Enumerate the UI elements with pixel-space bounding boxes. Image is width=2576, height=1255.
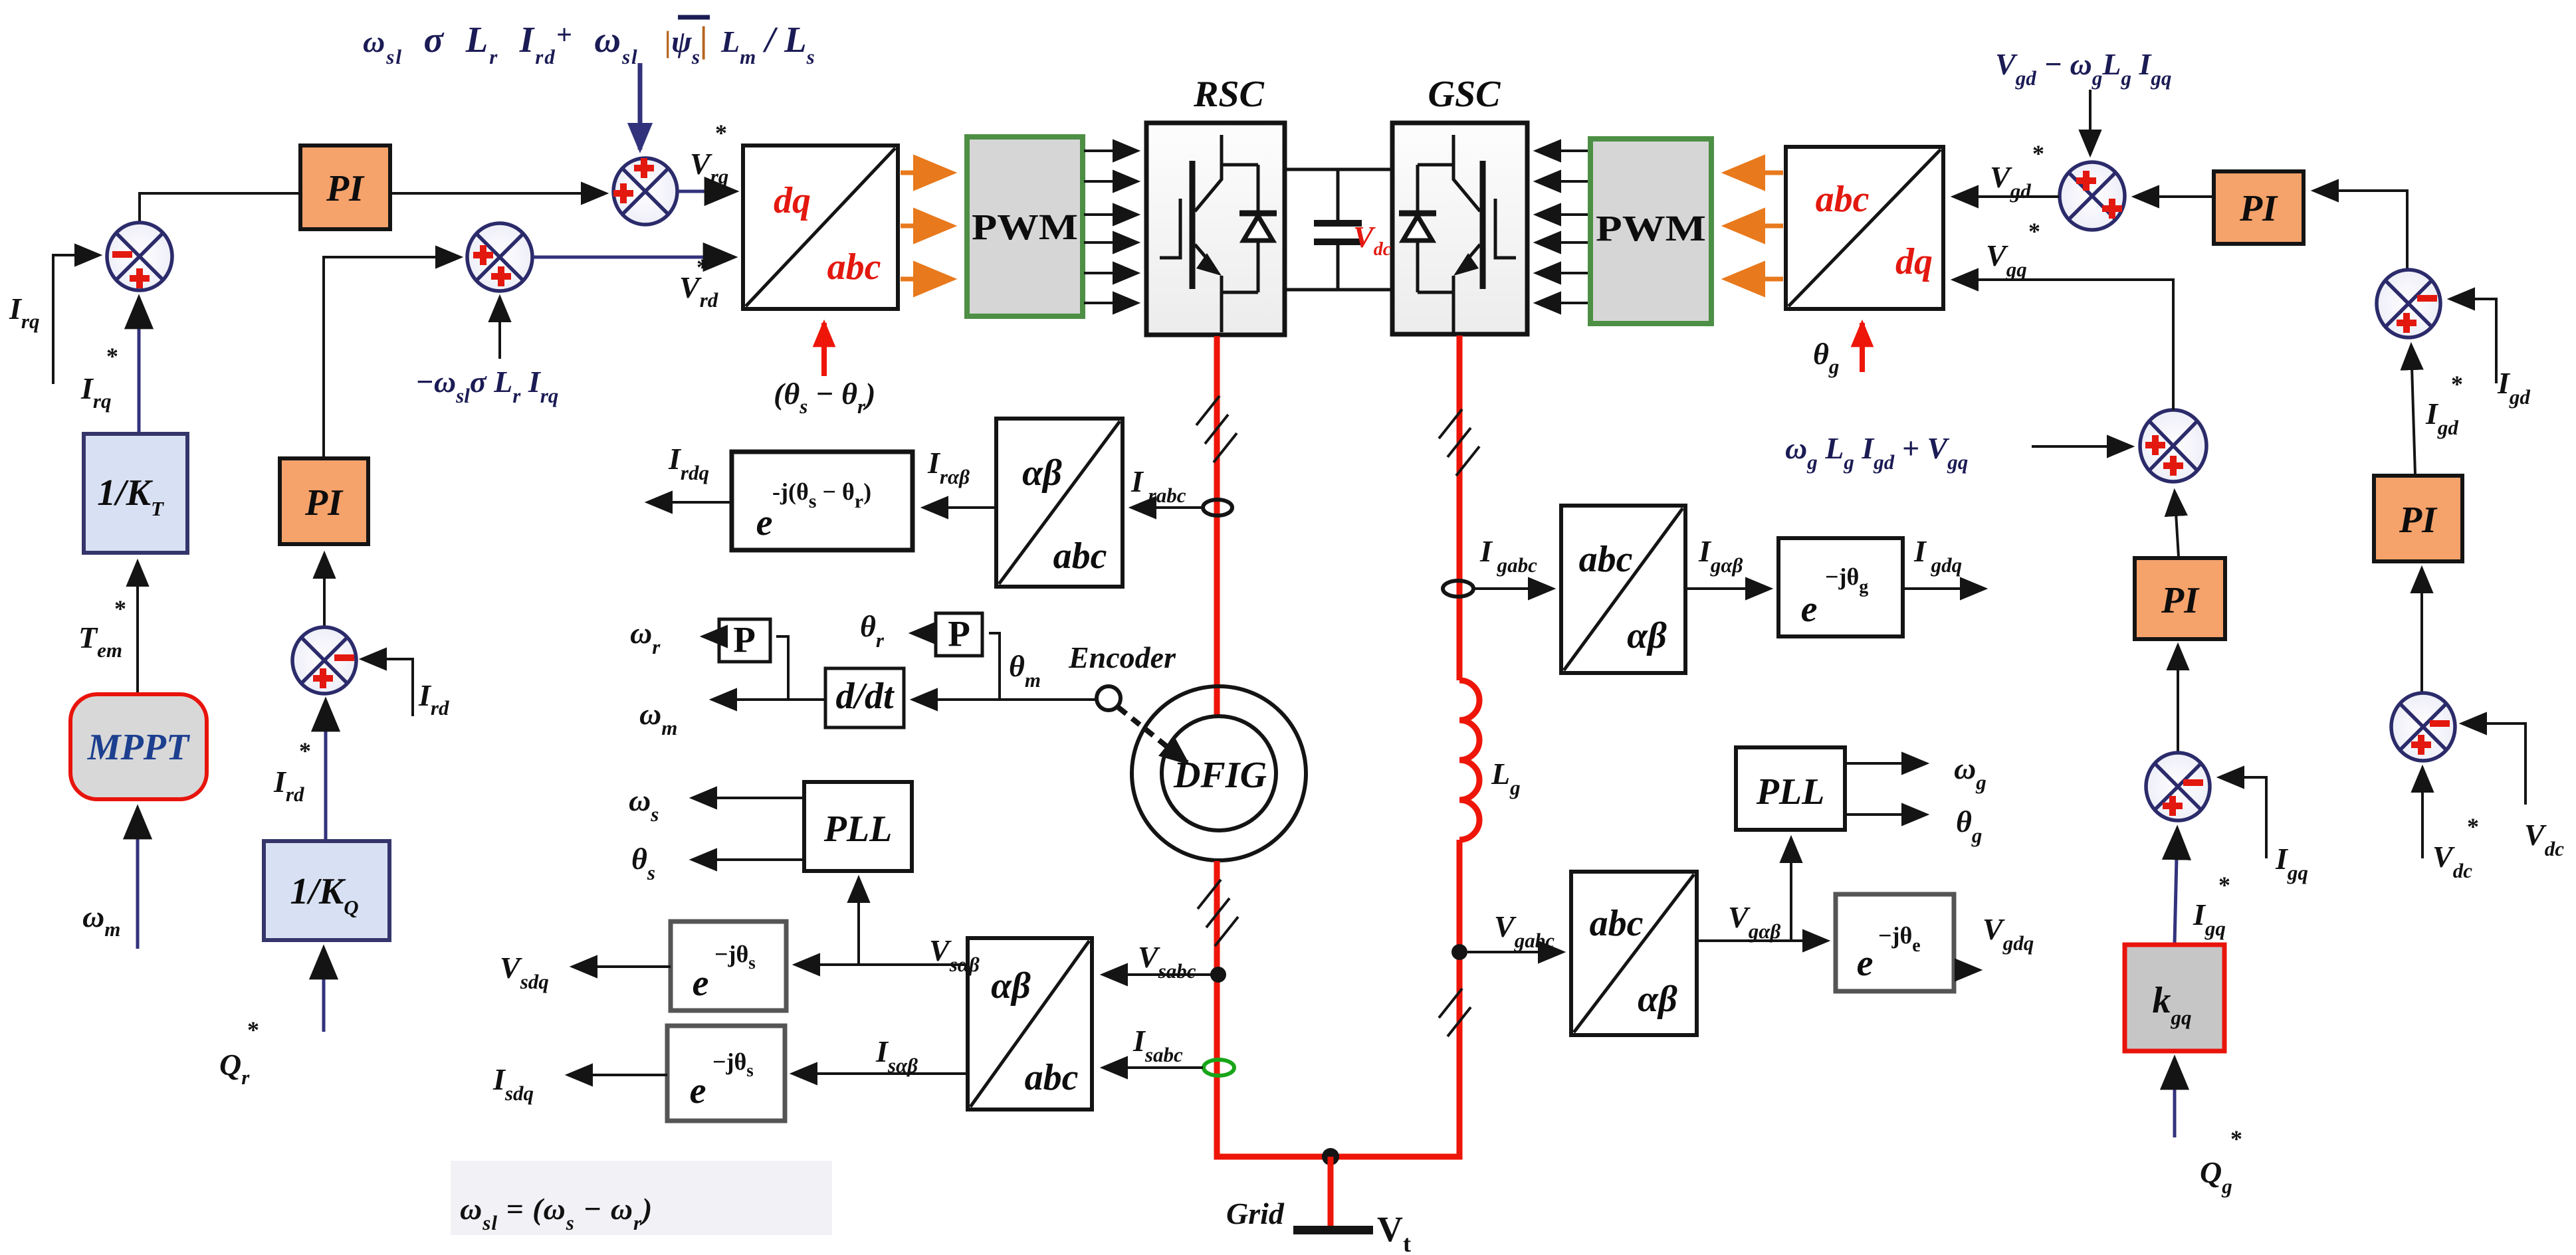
wire Vsabc to stator transform: [1103, 973, 1211, 976]
svg-text:Encoder: Encoder: [1068, 640, 1176, 674]
wire Igalphabeta to exp box: [1685, 587, 1770, 590]
wire S9 output to PI(Vdc): [2420, 569, 2423, 693]
svg-text:*: *: [114, 595, 126, 622]
wire Irdq output: [648, 501, 732, 504]
wire Vdc feedback into S9: [2462, 724, 2525, 805]
transistor IGBT (GSC mirrored): [1418, 135, 1516, 332]
svg-text:PWM: PWM: [1596, 208, 1706, 248]
svg-text:αβ: αβ: [1022, 452, 1062, 494]
block PI top right (d-axis current PI): [2214, 171, 2304, 244]
svg-text:abc: abc: [1579, 539, 1633, 580]
block RSC converter: [1146, 123, 1285, 335]
wire feedforward -wsl sigma Lr Irq into S4 bottom: [498, 298, 501, 359]
svg-text:*: *: [2230, 1125, 2242, 1152]
wire S6 output Vgq* to abc/dq: [1954, 280, 2173, 410]
summing junction S7 (Igd* - Igd): [2377, 270, 2440, 338]
wire S7 output to PI: [2314, 191, 2407, 270]
transistor IGBT (RSC): [1160, 135, 1258, 332]
block exp(-j theta_g) rotation: [1778, 538, 1903, 636]
node label feedforward wsl*sigma*Lr*Ird + wsl*|psi_s|Lm/Ls: [363, 17, 815, 68]
wire Tem* from MPPT to 1/KT: [136, 562, 139, 693]
block PI1 (rotor q-axis current PI): [300, 145, 390, 229]
wire grid bus bottom (red): [1217, 1151, 1459, 1157]
wire Irq feedback into S2: [53, 255, 99, 384]
svg-text:*: *: [715, 120, 727, 146]
capacitor DC link: [1314, 169, 1362, 290]
svg-text:αβ: αβ: [991, 965, 1031, 1007]
wire d/dt output wm: [712, 698, 825, 701]
block 1/KQ: [264, 841, 389, 940]
summing junction S6 (Vgq* sum): [2140, 410, 2206, 482]
node junction grid tap: [1322, 1148, 1339, 1165]
svg-text:abc: abc: [1816, 179, 1870, 220]
svg-text:dq: dq: [1895, 241, 1933, 282]
wire orange PWM command c (grid): [1727, 277, 1783, 282]
ground grid bar: [1293, 1226, 1373, 1234]
block abc/dq grid transform: [1786, 147, 1943, 309]
block GSC converter: [1392, 123, 1527, 334]
svg-text:PLL: PLL: [1756, 771, 1825, 813]
wire orange PWM command b: [901, 224, 952, 229]
svg-text:e: e: [690, 1070, 706, 1111]
block exp(-j theta_s) voltage rotation: [671, 921, 786, 1011]
svg-text:abc: abc: [1025, 1057, 1079, 1098]
node three-phase hash marks (GSC output): [1439, 409, 1479, 476]
wire PI output to S6: [2175, 492, 2179, 557]
machine DFIG: [1132, 686, 1306, 860]
wire Igdq output: [1903, 587, 1985, 590]
svg-text:PWM: PWM: [972, 207, 1078, 247]
svg-text:*: *: [299, 737, 311, 764]
svg-text:abc: abc: [827, 246, 881, 288]
node current sensor Isabc (green): [1204, 1060, 1234, 1076]
block PWM (rotor side): [967, 137, 1083, 316]
wire Irabc to ab/abc box: [1132, 506, 1202, 509]
wire S5 output Vgd* to abc/dq: [1954, 195, 2059, 198]
wire junction up to P1: [776, 636, 788, 700]
wire Igq* from kgq to S8: [2175, 829, 2177, 943]
svg-text:*: *: [2032, 140, 2044, 167]
svg-text:RSC: RSC: [1193, 74, 1264, 115]
wire DC link bottom: [1285, 288, 1392, 292]
wire feedforward arrow into S1 top: [638, 63, 643, 149]
wire PI1 output to S1: [391, 192, 605, 195]
wire wm input into MPPT: [136, 809, 140, 949]
wire junction up to PLL: [857, 878, 860, 965]
block exp(-j theta_s) current rotation: [667, 1026, 785, 1121]
block alphabeta/abc rotor current transform: [996, 419, 1123, 587]
node encoder circle: [1097, 686, 1121, 710]
svg-text:DFIG: DFIG: [1173, 755, 1267, 796]
wire PI2 output to S4: [324, 257, 460, 458]
summing junction S9 (Vdc* - Vdc): [2391, 693, 2455, 761]
svg-text:abc: abc: [1590, 903, 1644, 944]
block P2 (pole pairs): [936, 613, 982, 656]
summing junction S4 (Vrd* = PI + feedforward): [467, 223, 532, 291]
svg-text:e: e: [693, 963, 709, 1004]
wire Igabc to abc/alphabeta: [1473, 587, 1553, 590]
block abc/alphabeta grid voltage transform: [1571, 872, 1697, 1035]
block exp(-j theta_e) rotation: [1836, 894, 1954, 991]
svg-text:*: *: [697, 254, 708, 280]
wire Isabc to stator transform: [1103, 1066, 1203, 1069]
node current sensor Igabc: [1443, 581, 1473, 597]
svg-text:*: *: [2218, 872, 2230, 898]
block PI (q-axis grid current PI): [2135, 558, 2225, 639]
node current sensor Irabc: [1203, 500, 1232, 516]
summing junction S2 (Irq* - Irq): [107, 223, 172, 290]
block kgq (reactive power gain): [2125, 945, 2224, 1051]
wire Igq feedback into S8: [2220, 777, 2266, 858]
node three-phase hash marks (rotor): [1196, 396, 1237, 462]
svg-text:PI: PI: [2161, 580, 2200, 621]
wire Isalphabeta to exp box: [793, 1072, 968, 1075]
wire junction up to P2: [989, 633, 1000, 700]
block dq/abc rotor transform: [743, 145, 898, 309]
svg-text:*: *: [2028, 218, 2040, 244]
node junction Vgabc tap: [1451, 944, 1467, 960]
wire encoder dashed shaft to DFIG: [1119, 708, 1187, 763]
wire theta_g red arrow into abc/dq: [1860, 323, 1865, 372]
wire P1 output wr: [703, 635, 719, 638]
svg-text:e: e: [1857, 943, 1874, 984]
wire (theta_s - theta_r) red arrow into dq/abc: [821, 323, 827, 376]
summing junction S5 (Vgd* sum): [2060, 162, 2125, 230]
block PI2 (rotor d-axis current PI): [280, 458, 368, 544]
wire orange PWM command b (grid): [1727, 224, 1783, 229]
wire junction up to grid PLL: [1790, 838, 1792, 941]
wire GSC phase line (red) to Lg: [1457, 336, 1463, 680]
wire Iralphabeta to exp box: [924, 506, 996, 509]
wire theta_s output: [693, 858, 804, 861]
block PWM (grid side): [1590, 139, 1711, 324]
svg-text:*: *: [2451, 371, 2463, 397]
wire Igd* from PI(Vdc) to S7: [2411, 345, 2415, 474]
svg-text:PI: PI: [326, 168, 365, 209]
svg-text:PI: PI: [2399, 500, 2438, 541]
block alphabeta/abc stator transform: [968, 938, 1092, 1110]
svg-text:*: *: [106, 343, 118, 369]
block MPPT: [70, 694, 207, 799]
svg-text:PLL: PLL: [823, 809, 893, 850]
wire Ird* from 1/KQ to S3: [324, 701, 328, 840]
wire to grid symbol (red): [1328, 1157, 1334, 1228]
wire theta_g output: [1845, 813, 1926, 816]
svg-text:PI: PI: [304, 482, 344, 524]
svg-text:Grid: Grid: [1226, 1197, 1285, 1230]
wire P2 output theta_r: [912, 632, 936, 634]
diode antiparallel (GSC): [1399, 165, 1436, 292]
block exp(-j(theta_s-theta_r)) rotation: [732, 452, 912, 550]
block PLL stator: [804, 782, 912, 871]
wire PI to S5: [2135, 195, 2214, 198]
block abc/alphabeta grid current transform: [1561, 506, 1685, 673]
summing junction S8 (Igq* - Igq): [2146, 753, 2210, 821]
node three-phase hash marks (grid): [1439, 989, 1471, 1036]
wire Igd feedback into S7: [2450, 299, 2496, 383]
block P1 (pole pairs): [719, 619, 770, 662]
wire gate pulses PWM to RSC (6 arrows): [1084, 151, 1137, 303]
block PLL grid: [1736, 747, 1845, 830]
svg-text:abc: abc: [1053, 535, 1107, 577]
wire wg output: [1845, 762, 1926, 765]
wire S8 output to PI: [2177, 646, 2179, 752]
svg-text:P: P: [948, 613, 970, 654]
wire feedforward into S5 top: [2089, 90, 2092, 154]
wire gate pulses PWM to GSC (6 arrows): [1537, 151, 1589, 303]
wire ws output: [693, 797, 804, 799]
wire feedforward into S6 left: [2032, 445, 2131, 448]
wire orange PWM command a: [901, 171, 952, 175]
wire Vsdq output: [573, 965, 671, 968]
wire orange PWM command a (grid): [1727, 171, 1783, 175]
svg-text:PI: PI: [2239, 188, 2278, 229]
svg-text:e: e: [1801, 589, 1818, 630]
svg-text:*: *: [2467, 813, 2479, 840]
wire Vgdq output: [1958, 969, 1979, 971]
wire Irq* from 1/KT to S2: [138, 298, 141, 433]
wire S4 output to dq/abc (Vrd*): [533, 256, 734, 259]
svg-text:*: *: [247, 1016, 259, 1043]
wire Qr* into 1/KQ: [322, 949, 326, 1032]
wire S3 output to PI2: [323, 554, 326, 628]
svg-text:dq: dq: [774, 180, 811, 221]
block 1/KT: [84, 434, 187, 553]
block d/dt: [825, 668, 904, 727]
inductor Lg (red coil): [1459, 680, 1479, 840]
wire S2 output up to PI1 input: [140, 193, 299, 224]
summing junction S3 (Ird* - Ird): [292, 627, 356, 694]
svg-text:P: P: [733, 619, 756, 660]
svg-text:αβ: αβ: [1627, 615, 1667, 656]
svg-text:αβ: αβ: [1638, 979, 1677, 1020]
svg-text:GSC: GSC: [1428, 74, 1501, 115]
svg-text:e: e: [756, 502, 773, 543]
node junction Vsabc tap: [1210, 967, 1226, 983]
wire stator phase line (red) DFIG to grid bus: [1214, 861, 1220, 1154]
block PI (DC voltage PI): [2374, 476, 2462, 561]
wire encoder to d/dt: [913, 698, 1096, 701]
wire DC link top: [1285, 168, 1392, 171]
svg-text:d/dt: d/dt: [835, 676, 895, 717]
wire orange PWM command c: [901, 277, 952, 282]
wire S1 to dq/abc box (Vrq*): [678, 190, 735, 193]
wire Qg* into kgq: [2173, 1059, 2177, 1137]
wire rotor phase line (red) RSC to DFIG: [1214, 336, 1220, 716]
diode antiparallel (RSC): [1239, 165, 1277, 292]
summing junction S1 (Vrq* = PI + feedforward): [613, 158, 677, 225]
wire Ird feedback into S3: [362, 659, 413, 716]
wire Vdc* into S9 bottom: [2421, 768, 2424, 858]
wire Lg to grid bus (red): [1457, 840, 1463, 1157]
wire Vgalphabeta to exp box: [1697, 939, 1827, 942]
wire Vsalphabeta to exp box: [796, 963, 968, 966]
node three-phase hash marks (stator): [1198, 880, 1238, 946]
svg-text:MPPT: MPPT: [87, 727, 191, 768]
wire Isdq output: [568, 1074, 667, 1076]
wire Vgabc to abc/alphabeta: [1467, 951, 1562, 953]
node label slip equation panel: [451, 1161, 832, 1235]
